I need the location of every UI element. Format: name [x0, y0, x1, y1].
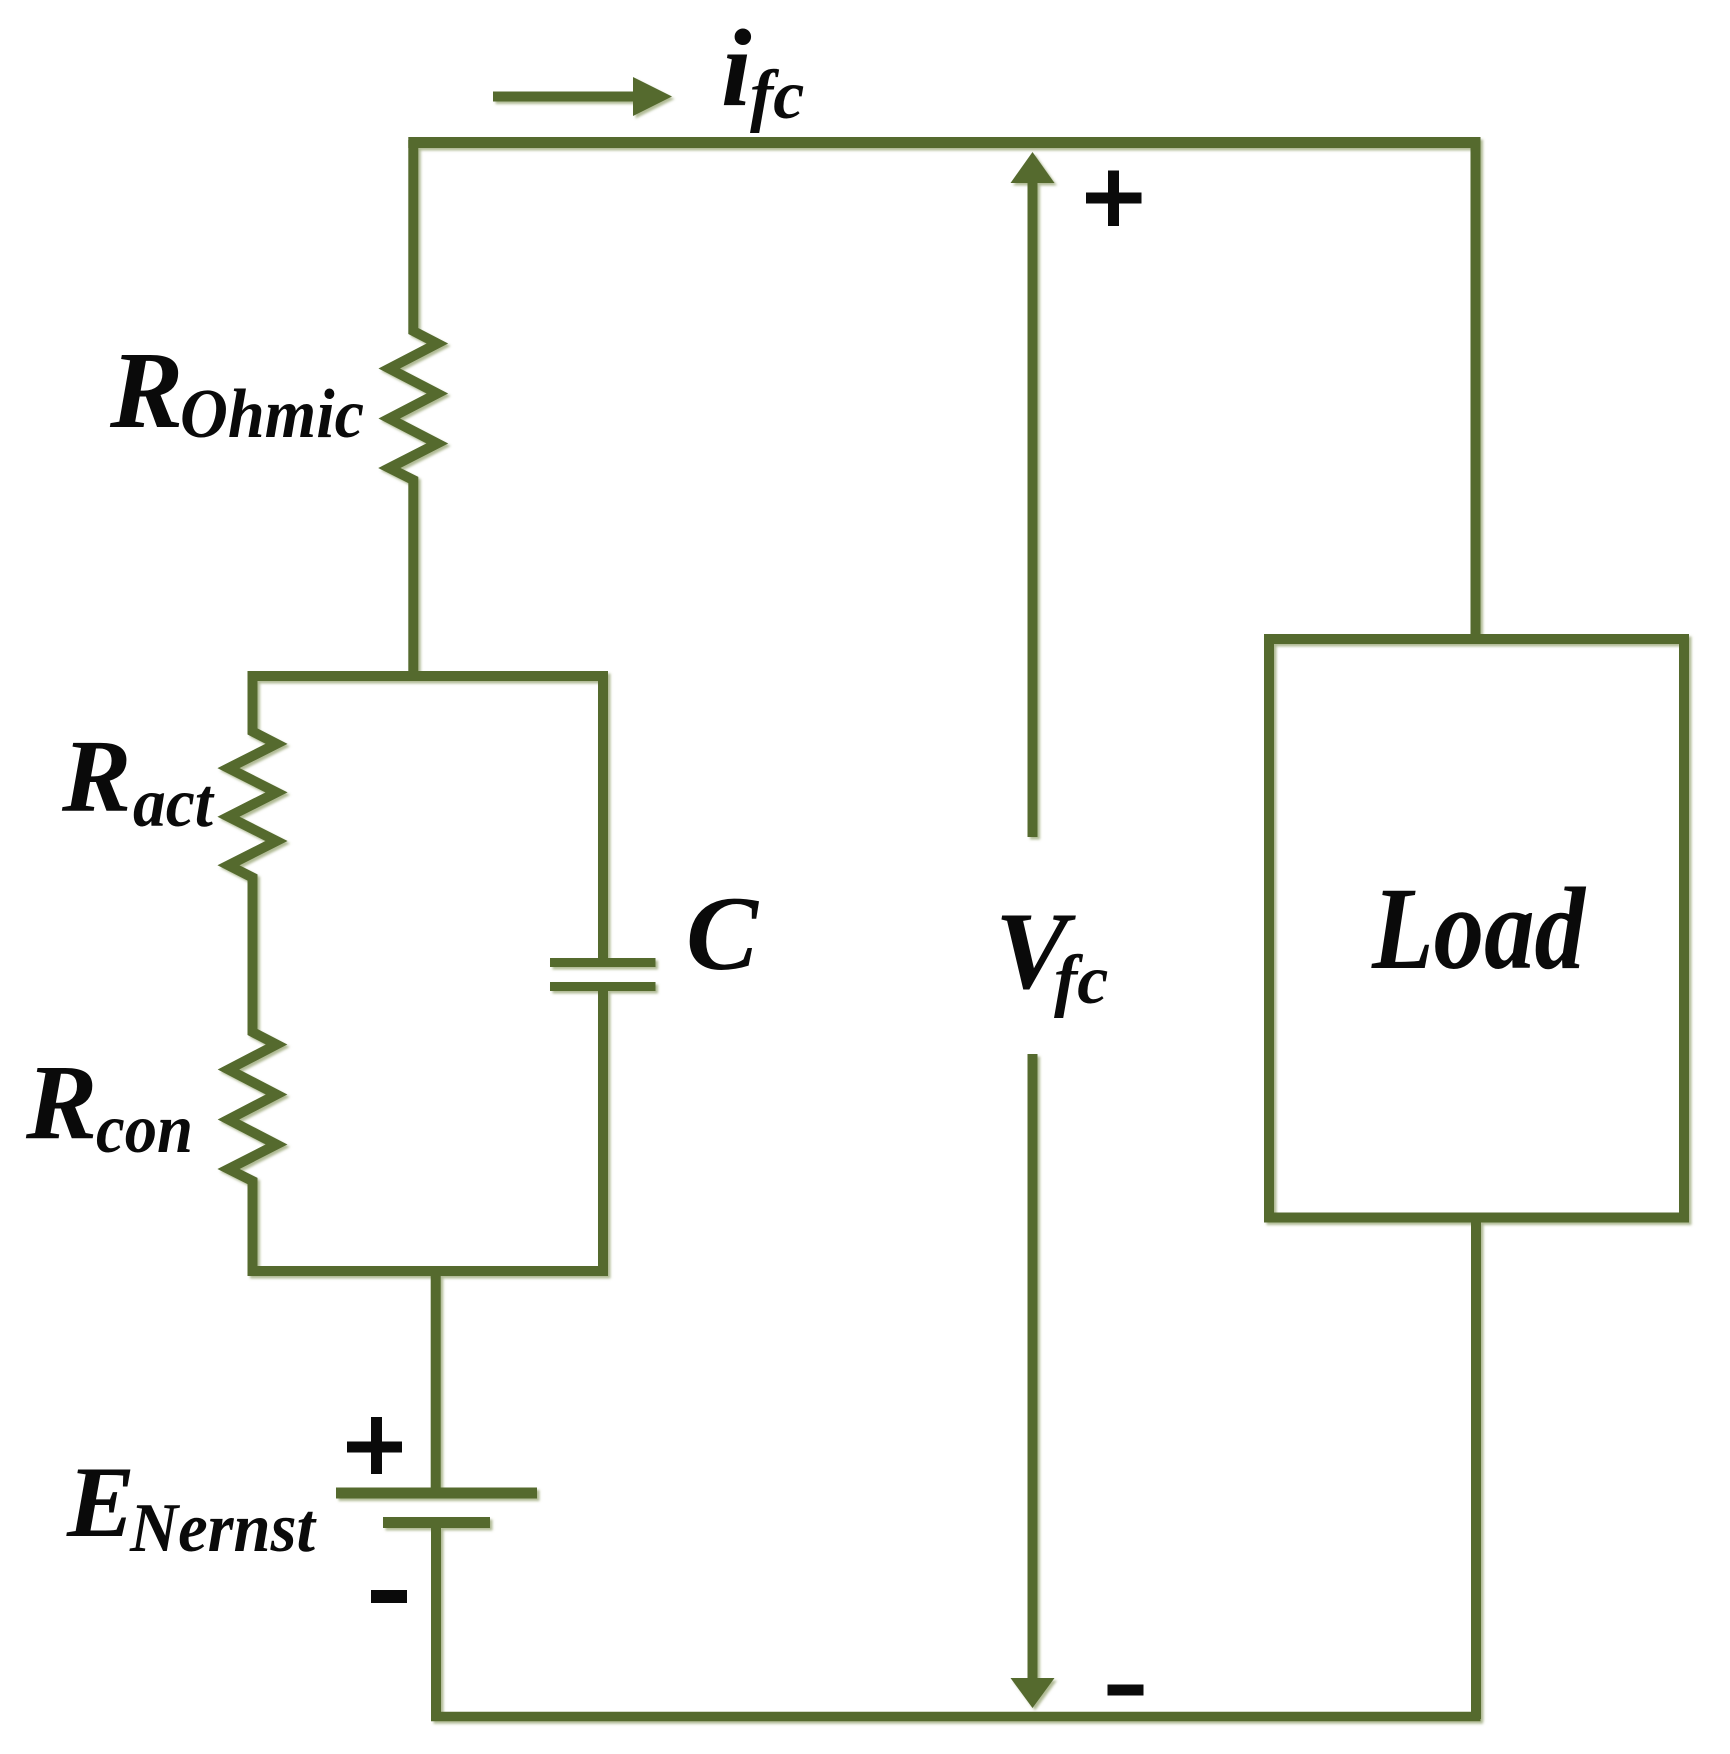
svg-text:con: con	[96, 1091, 193, 1168]
svg-text:Nernst: Nernst	[129, 1490, 317, 1567]
svg-text:E: E	[66, 1446, 135, 1559]
svg-text:C: C	[686, 875, 759, 992]
svg-text:Load: Load	[1371, 863, 1587, 994]
svg-text:fc: fc	[1054, 942, 1108, 1019]
svg-text:R: R	[109, 329, 183, 451]
svg-text:Ohmic: Ohmic	[180, 376, 364, 453]
svg-text:fc: fc	[750, 57, 804, 134]
svg-text:R: R	[61, 719, 131, 834]
svg-text:i: i	[721, 7, 752, 129]
svg-text:R: R	[25, 1044, 97, 1162]
svg-text:act: act	[133, 765, 215, 842]
